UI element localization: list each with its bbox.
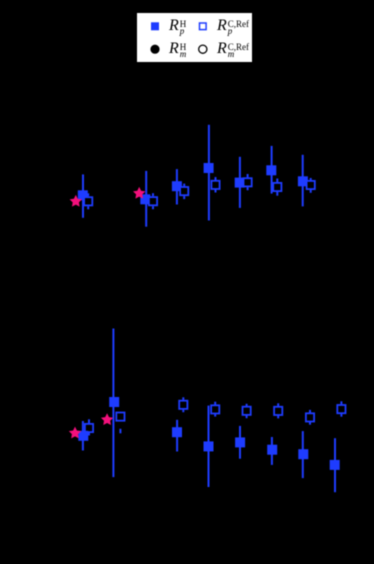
open-square stub top B6 bbox=[277, 403, 279, 406]
legend marker filled black circle bbox=[150, 45, 159, 54]
legend label Rp^C,Ref bbox=[217, 18, 249, 35]
filled square T3 bbox=[172, 181, 182, 191]
errorbar line T1 bbox=[82, 174, 84, 217]
open-square stub top B1 bbox=[88, 419, 90, 423]
open square T1 bbox=[84, 197, 92, 205]
open-square stub top B4 bbox=[214, 402, 216, 405]
filled square B3 bbox=[172, 427, 182, 437]
legend label Rm^C,Ref bbox=[217, 41, 249, 58]
open-square stub bottom B8 bbox=[340, 414, 342, 417]
open-square stub bottom B5 bbox=[246, 415, 248, 418]
open square B3 bbox=[179, 401, 187, 409]
filled square B2 bbox=[109, 397, 119, 407]
open-square stub bottom B7 bbox=[309, 422, 311, 425]
filled square T5 bbox=[235, 178, 245, 188]
open square B1 bbox=[85, 424, 93, 432]
legend label Rm^H bbox=[169, 41, 186, 58]
open-square stub top B3 bbox=[182, 397, 184, 400]
star T2 bbox=[133, 187, 145, 199]
filled square B6 bbox=[267, 445, 277, 455]
legend box bbox=[137, 13, 252, 62]
errorbar line B3 bbox=[176, 420, 178, 452]
filled square B5 bbox=[235, 437, 245, 447]
errorbar line B7 bbox=[302, 431, 304, 478]
open-square stub top T6 bbox=[276, 179, 278, 183]
errorbar line T7 bbox=[302, 155, 304, 207]
open-square stub top T2 bbox=[152, 193, 154, 196]
open-square stub bottom T7 bbox=[310, 190, 312, 193]
filled square T7 bbox=[298, 176, 308, 186]
legend label Rp^H bbox=[169, 18, 186, 35]
filled square T4 bbox=[204, 163, 214, 173]
filled square T6 bbox=[266, 165, 276, 175]
open-square stub bottom T1 bbox=[87, 206, 89, 209]
filled square T1 bbox=[78, 190, 88, 200]
open square T6 bbox=[273, 183, 281, 191]
open-square stub bottom T6 bbox=[276, 192, 278, 196]
star B2 bbox=[101, 413, 113, 425]
filled square B4 bbox=[204, 441, 214, 451]
filled square T2 bbox=[140, 194, 150, 204]
legend marker open blue square bbox=[200, 23, 207, 30]
filled square B7 bbox=[298, 449, 308, 459]
open-square stub top B8 bbox=[340, 401, 342, 404]
open-square stub top B7 bbox=[309, 410, 311, 413]
open square T3 bbox=[180, 187, 188, 195]
filled square B8 bbox=[330, 460, 340, 470]
open-square stub bottom B6 bbox=[277, 415, 279, 418]
errorbar line T6 bbox=[271, 146, 273, 194]
filled square B1 bbox=[78, 431, 88, 441]
errorbar line B8 bbox=[334, 438, 336, 492]
open-square stub bottom T2 bbox=[152, 206, 154, 209]
open-square stub bottom B3 bbox=[182, 410, 184, 413]
open-square stub bottom B2 bbox=[119, 429, 121, 434]
errorbar line T5 bbox=[239, 157, 241, 208]
open square B4 bbox=[211, 405, 219, 413]
open-square stub top B5 bbox=[246, 404, 248, 407]
legend marker open black circle bbox=[199, 45, 207, 53]
open square B5 bbox=[243, 407, 251, 415]
open square T2 bbox=[149, 197, 157, 205]
open-square stub top T5 bbox=[247, 174, 249, 177]
errorbar line T4 bbox=[208, 125, 210, 221]
open-square stub top T4 bbox=[215, 177, 217, 180]
open-square stub bottom T5 bbox=[247, 187, 249, 190]
open-square stub top T7 bbox=[310, 178, 312, 181]
errorbar line T3 bbox=[176, 169, 178, 204]
legend marker filled blue square bbox=[151, 22, 159, 30]
errorbar line B6 bbox=[271, 437, 273, 465]
errorbar line B5 bbox=[239, 426, 241, 459]
errorbar line B4 bbox=[208, 406, 210, 487]
open-square stub bottom T4 bbox=[215, 190, 217, 193]
open-square stub bottom B1 bbox=[88, 433, 90, 436]
open square B6 bbox=[274, 407, 282, 415]
errorbar line B2 bbox=[112, 329, 114, 478]
open square B8 bbox=[337, 405, 345, 413]
errorbar line T2 bbox=[145, 171, 147, 227]
open square T7 bbox=[307, 181, 315, 189]
open-square stub top T1 bbox=[87, 193, 89, 196]
open square T5 bbox=[244, 178, 252, 186]
errorbar line B1 bbox=[82, 421, 84, 451]
star T1 bbox=[70, 195, 82, 207]
open square B7 bbox=[306, 413, 314, 421]
star B1 bbox=[69, 427, 81, 439]
open-square stub bottom B4 bbox=[214, 414, 216, 417]
open-square stub top T3 bbox=[183, 184, 185, 187]
open square B2 bbox=[116, 413, 124, 421]
open square T4 bbox=[211, 181, 219, 189]
open-square stub bottom T3 bbox=[183, 196, 185, 199]
